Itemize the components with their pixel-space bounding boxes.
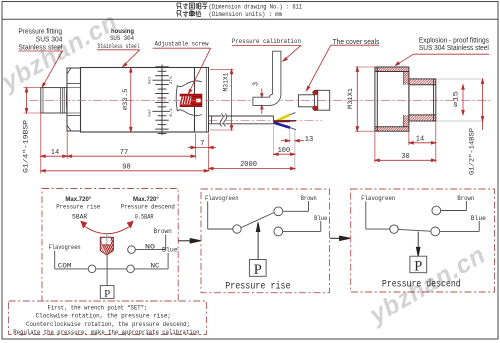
svg-text:P: P	[254, 262, 262, 278]
seal rings red	[313, 90, 318, 95]
end slab M31 thread	[195, 68, 209, 133]
allen key	[253, 51, 281, 105]
dim 14	[41, 155, 67, 158]
svg-text:3,6: 3,6	[170, 76, 174, 85]
svg-text:2000: 2000	[240, 161, 257, 169]
label explosion-proof	[419, 37, 489, 52]
svg-text:Max.720°: Max.720°	[133, 197, 159, 203]
mid lever	[241, 213, 274, 228]
right brown wire	[441, 201, 467, 211]
main centerline	[29, 99, 491, 101]
svg-text:100: 100	[278, 147, 291, 155]
housing body	[81, 68, 195, 133]
mid blue circle	[274, 227, 283, 236]
cable	[209, 116, 274, 124]
dim 7	[188, 146, 216, 149]
dim 77	[67, 155, 195, 158]
svg-text:Pressure descend: Pressure descend	[121, 204, 175, 211]
svg-text:Flavogreen: Flavogreen	[49, 244, 81, 251]
svg-text:14: 14	[416, 135, 424, 143]
dim 3 (key)	[261, 89, 263, 115]
right wiring box	[351, 189, 495, 292]
svg-text:5BAR: 5BAR	[72, 213, 87, 220]
svg-text:∅33.5: ∅33.5	[122, 89, 130, 111]
wires	[274, 115, 290, 122]
svg-text:77: 77	[120, 149, 128, 157]
svg-text:3: 3	[253, 82, 261, 86]
svg-text:Flavogreen: Flavogreen	[205, 195, 239, 202]
pressure fitting thread	[41, 88, 67, 113]
svg-text:Adjustable screw: Adjustable screw	[155, 41, 210, 49]
cable centerline	[209, 119, 323, 121]
dim phi15	[462, 85, 465, 115]
svg-text:Brown: Brown	[457, 195, 474, 202]
dim 100	[274, 153, 295, 156]
svg-text:Pressure calibration: Pressure calibration	[232, 38, 301, 46]
svg-text:Pressure rise: Pressure rise	[225, 281, 290, 292]
svg-text:M31X1: M31X1	[347, 88, 354, 109]
svg-text:M31X1: M31X1	[222, 72, 229, 91]
NO wire	[135, 235, 165, 250]
expl ext lines	[375, 121, 436, 163]
watermark top-left	[0, 8, 122, 97]
mid P box	[249, 260, 266, 277]
dim 98	[41, 170, 209, 173]
svg-text:The cover seals: The cover seals	[333, 39, 380, 46]
mid blue wire	[283, 221, 321, 231]
svg-text:bar: bar	[147, 108, 152, 117]
Blue wire drop	[167, 253, 169, 269]
mid com wire	[208, 201, 233, 229]
instructions box	[9, 301, 207, 335]
svg-text:0,4: 0,4	[170, 108, 174, 117]
P box left	[100, 286, 114, 299]
label pressure fitting	[18, 29, 62, 52]
svg-text:Blue: Blue	[162, 246, 178, 253]
svg-text:G1/2"-14BSP: G1/2"-14BSP	[469, 128, 476, 175]
svg-text:0.5BAR: 0.5BAR	[135, 213, 154, 220]
center wire down	[106, 255, 108, 286]
adjustable screw (red)	[180, 94, 202, 107]
svg-text:13: 13	[305, 136, 313, 144]
NO contact circle	[128, 246, 136, 254]
title separator	[2, 18, 498, 20]
svg-text:Regulate the pressure, make th: Regulate the pressure, make the appropri…	[13, 329, 199, 336]
right P box	[410, 256, 427, 273]
svg-text:98: 98	[122, 163, 130, 171]
explosion fitting hatch	[375, 67, 409, 71]
right com wire	[366, 201, 390, 229]
dim ⌀33.5	[130, 68, 133, 132]
NC contact circle	[127, 265, 135, 273]
wire flavogreen drop	[54, 251, 56, 269]
dim 30 expl	[375, 159, 436, 162]
svg-text:14: 14	[51, 149, 59, 157]
dim M31X1 expl	[355, 67, 374, 131]
scale ruler	[152, 65, 170, 136]
right com circle	[390, 225, 398, 233]
svg-text:Counterclockwise rotation, the: Counterclockwise rotation, the pressure …	[26, 321, 190, 328]
cable break	[220, 114, 227, 127]
watermark bottom-right	[363, 241, 490, 330]
screw symbol	[100, 237, 113, 255]
cam pocket outline	[176, 81, 202, 116]
svg-text:Max.720°: Max.720°	[65, 197, 91, 203]
dim M31X1 left	[210, 69, 234, 130]
right P arrow down	[416, 232, 420, 257]
middle wiring box	[201, 189, 330, 293]
svg-text:Brown: Brown	[301, 195, 317, 202]
svg-text:G1/4"-19BSP: G1/4"-19BSP	[23, 120, 30, 173]
svg-text:Blue: Blue	[471, 215, 486, 222]
svg-text:COM: COM	[58, 262, 72, 269]
svg-text:∅15: ∅15	[453, 90, 460, 107]
svg-text:SUS 304 Stainless steel: SUS 304 Stainless steel	[419, 45, 489, 52]
svg-text:Flavogreen: Flavogreen	[361, 195, 395, 202]
svg-text:(Dimension units) : mm: (Dimension units) : mm	[209, 11, 283, 18]
svg-text:(Dimension drawing No.) : 611: (Dimension drawing No.) : 611	[209, 4, 303, 11]
hex nut	[67, 68, 81, 131]
dim 14 expl	[409, 142, 436, 145]
cover seal plug	[298, 90, 329, 110]
right blue circle	[431, 227, 440, 236]
svg-text:30: 30	[401, 153, 409, 161]
thread crest ext lines	[436, 79, 484, 121]
svg-text:Clockwise rotation, the pressu: Clockwise rotation, the pressure rise;	[36, 313, 171, 320]
explosion right wall hatch	[404, 72, 409, 85]
red arc arrows	[84, 226, 130, 234]
svg-text:Brown: Brown	[154, 228, 173, 235]
arrow middle to right	[330, 236, 350, 240]
svg-text:First, the wrench point “SET”;: First, the wrench point “SET”;	[48, 304, 148, 311]
screw slot pin	[106, 234, 108, 245]
explosion fitting body	[375, 67, 436, 131]
svg-text:NC: NC	[151, 262, 160, 269]
arrow left to middle	[178, 239, 200, 243]
dim 2000	[209, 167, 295, 170]
right blue wire	[440, 221, 480, 231]
right lever	[398, 229, 431, 231]
mid brown wire	[283, 201, 309, 211]
right brown circle	[432, 206, 441, 215]
dim 13	[281, 139, 304, 142]
svg-text:Pressure fitting: Pressure fitting	[18, 29, 62, 36]
svg-text:7: 7	[200, 140, 204, 148]
wire COM row	[55, 268, 168, 270]
mid com circle	[233, 225, 241, 233]
dim G1/2	[481, 79, 484, 130]
svg-text:Pressure rise: Pressure rise	[56, 204, 100, 211]
svg-text:Set: Set	[148, 76, 152, 84]
svg-text:Blue: Blue	[314, 215, 328, 222]
mid brown circle	[274, 207, 283, 216]
extension lines grey	[274, 125, 295, 172]
title row 1 CJK 尺寸图编号	[177, 3, 207, 17]
COM contact circle	[88, 265, 96, 273]
mid P arrow up	[256, 222, 260, 259]
instruction text	[13, 304, 199, 336]
left wiring box	[42, 189, 178, 302]
svg-text:Explosion - proof fittings: Explosion - proof fittings	[419, 37, 489, 44]
svg-text:P: P	[104, 288, 110, 300]
